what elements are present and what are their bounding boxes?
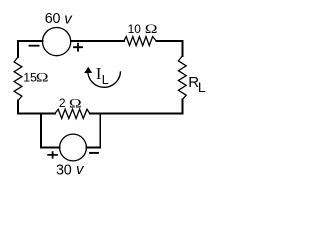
svg-text:L: L [102, 73, 109, 87]
current loop arrow IL arc [88, 71, 121, 88]
svg-text:10: 10 [128, 22, 142, 36]
plus polarity mark of source V2 [47, 151, 58, 158]
svg-text:30: 30 [56, 163, 72, 179]
wire 30V branch left leg [41, 114, 60, 148]
resistor 10 ohm zigzag [124, 37, 156, 46]
svg-text:v: v [64, 11, 73, 28]
wire bottom rail left segment + bottom-left corner [18, 101, 55, 114]
voltage source V1 60 V circle [43, 27, 71, 55]
wire top rail middle (source to 10 ohm resistor) [71, 40, 124, 42]
wire top-left corner (left rail top + top rail left segment) [18, 41, 42, 57]
svg-text:60: 60 [45, 11, 61, 27]
plus polarity mark of source V1 [73, 43, 83, 52]
wire right rail lower + bottom rail right segment [90, 100, 183, 114]
resistor 15 ohm zigzag [14, 57, 22, 101]
voltage source V2 30 V circle [60, 134, 87, 161]
svg-text:Ω: Ω [145, 22, 158, 37]
svg-text:L: L [198, 79, 206, 95]
svg-text:Ω: Ω [36, 70, 49, 85]
wire 30V branch right leg [86, 114, 100, 148]
svg-text:2: 2 [59, 96, 66, 110]
resistor RL zigzag [178, 56, 186, 100]
svg-text:v: v [76, 161, 85, 178]
minus polarity mark of source V1 [29, 45, 40, 47]
svg-text:I: I [96, 64, 102, 83]
wire top rail right + right rail upper [156, 41, 182, 56]
minus polarity mark of source V2 [89, 152, 99, 154]
resistor 2 ohm zigzag [55, 109, 90, 118]
current loop arrow IL head [85, 68, 91, 73]
svg-text:Ω: Ω [69, 96, 82, 111]
